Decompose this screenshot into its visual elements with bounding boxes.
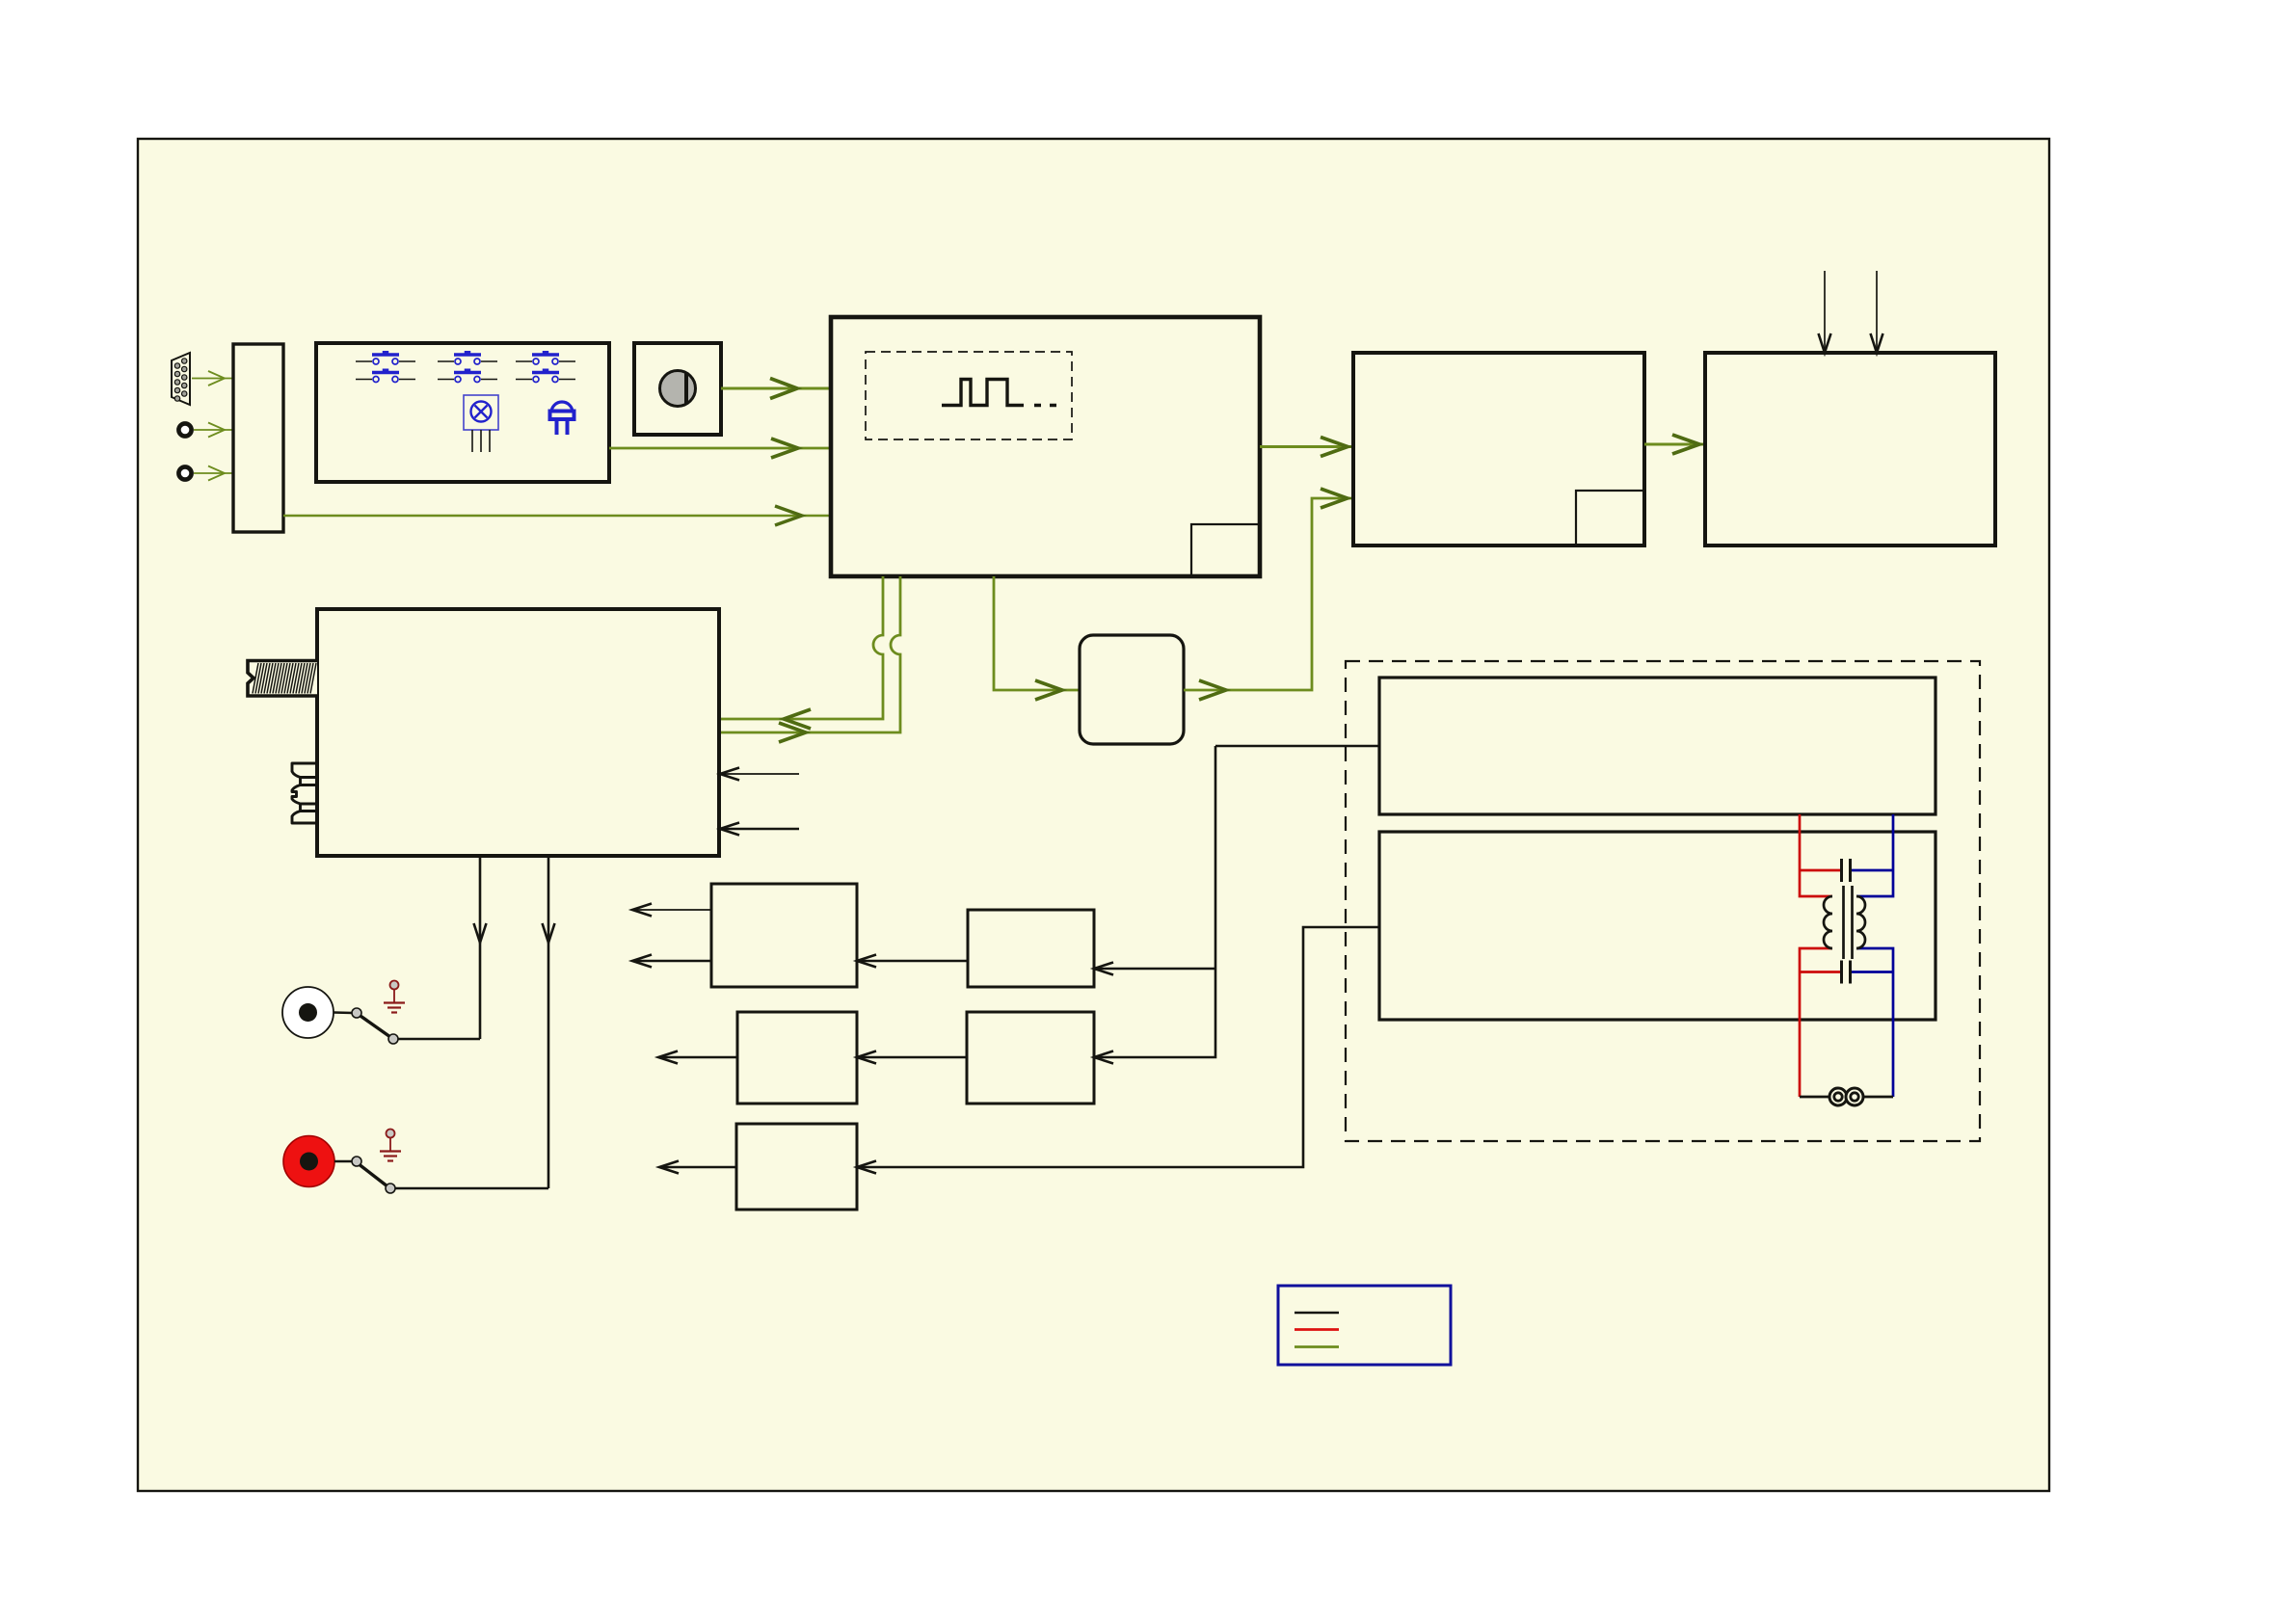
pushbutton SW3	[438, 351, 497, 364]
block control panel	[316, 343, 609, 482]
wire feedback into amplifier (thick)	[720, 823, 799, 836]
legend line black	[1295, 1312, 1339, 1315]
sheet border	[138, 139, 2049, 1491]
potentiometer RV1	[660, 371, 696, 407]
switch SW8	[334, 1157, 548, 1193]
wire E output	[659, 1161, 736, 1174]
wire CN2 to interface	[194, 466, 233, 481]
fuse / mains inlet	[1800, 1088, 1893, 1105]
block ADC rounded	[1080, 635, 1184, 744]
wire rail to D	[1094, 746, 1215, 1064]
capacitor C2	[1842, 961, 1851, 984]
wire DB9 to interface	[192, 371, 233, 386]
block E regulator	[736, 1124, 857, 1210]
legend line red	[1295, 1328, 1339, 1331]
connector jack CN1	[178, 423, 191, 436]
wire controller to driver	[1260, 438, 1353, 457]
switch SW7	[334, 1008, 480, 1044]
block A power supply	[711, 884, 857, 987]
transformer T1	[1824, 886, 1865, 959]
PWM waveform	[942, 380, 1056, 406]
block LV converter	[1379, 832, 1936, 1020]
wire interface to controller	[283, 506, 831, 525]
block HV converter	[1379, 678, 1936, 814]
block D regulator	[967, 1012, 1094, 1104]
capacitor C1	[1842, 859, 1851, 882]
wire potentiometer to controller	[721, 379, 831, 399]
wire driver to output stage	[1644, 435, 1705, 454]
controller notch	[1191, 524, 1260, 576]
wire CN1 to interface	[194, 423, 233, 438]
block controller U1	[831, 317, 1260, 576]
pushbutton SW4	[438, 369, 497, 383]
wire ADC to driver	[1184, 489, 1353, 700]
wire transformer blue side	[1852, 814, 1894, 1097]
driver notch	[1576, 491, 1644, 545]
wire amplifier output right	[543, 856, 555, 1188]
IR receiver U2	[464, 395, 498, 452]
block power amplifier	[317, 609, 719, 856]
wire transformer red side	[1800, 814, 1841, 1097]
wire A output thin	[632, 904, 711, 917]
dashed module boundary	[1346, 661, 1980, 1141]
block B regulator	[968, 910, 1094, 987]
wire controller PWM down-left pair (hop)	[720, 576, 900, 742]
wire LV box to E	[857, 927, 1379, 1174]
wire C output	[658, 1051, 737, 1064]
connector jack white	[282, 987, 334, 1038]
PWM dashed frame	[866, 352, 1072, 439]
pushbutton SW1	[356, 351, 415, 364]
pushbutton SW5	[516, 351, 575, 364]
legend box	[1278, 1286, 1451, 1365]
LED D1	[550, 402, 574, 435]
block C regulator	[737, 1012, 857, 1104]
edge connector	[292, 763, 317, 823]
wire control panel to controller	[609, 439, 831, 458]
connector J1 DB9	[172, 353, 190, 405]
legend line olive	[1295, 1345, 1339, 1348]
block driver	[1353, 353, 1644, 545]
block input interface	[233, 344, 283, 532]
ground symbol 1	[384, 981, 405, 1013]
wire supply arrow 1	[1819, 271, 1831, 353]
wire HV box to rail	[1215, 745, 1378, 748]
ground symbol 2	[380, 1130, 401, 1161]
pushbutton SW6	[516, 369, 575, 383]
wire supply arrow 2	[1871, 271, 1883, 353]
pushbutton SW2	[356, 369, 415, 383]
wire A output thick	[632, 955, 711, 968]
connector jack red	[283, 1136, 334, 1187]
heatsink	[248, 661, 317, 697]
wire rail to B	[1094, 963, 1215, 975]
block output stage	[1705, 353, 1995, 545]
connector jack CN2	[178, 466, 191, 479]
wire feedback into amplifier (thin)	[720, 768, 799, 781]
wire D to C	[857, 1051, 967, 1064]
wire controller to ADC box	[994, 576, 1080, 700]
wire amplifier output left	[474, 856, 487, 1039]
block potentiometer	[634, 343, 721, 435]
wire B to A	[857, 955, 968, 968]
